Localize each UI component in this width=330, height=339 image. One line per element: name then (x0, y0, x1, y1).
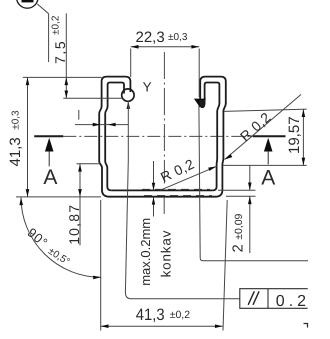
arrowhead 41,3 left bottom (26, 189, 30, 197)
extension line at wall jog (77, 163, 101, 165)
profile: right lip outer (200, 77, 226, 105)
arrowhead 2 up (248, 196, 252, 204)
svg-text:A: A (261, 167, 275, 190)
arrowhead R0,2 right (225, 154, 233, 160)
upper segment of dimension 2 (249, 165, 251, 190)
dimension line 41,3 left (27, 77, 29, 197)
profile: bottom inner edge (111, 189, 212, 191)
balloon circle (partially cut at top) (17, 0, 38, 8)
svg-text:konkav: konkav (158, 230, 173, 278)
arrowhead 22,3 right (191, 45, 199, 49)
leader from left lip tip down to control frame (125, 101, 239, 299)
right extension line down (223, 200, 227, 331)
konkav dashes above outer bottom (144, 194, 212, 196)
dimension 19,57 right (223, 109, 307, 165)
big down arrow at right lip tip (194, 99, 206, 108)
profile: right wall inner (213, 104, 220, 191)
svg-text:±0,2: ±0,2 (51, 15, 62, 35)
svg-text:41,3: 41,3 (136, 306, 165, 324)
note max. 0.2mm konkav leader upper (153, 161, 155, 191)
svg-text:41,3: 41,3 (7, 137, 24, 166)
svg-text:±0,09: ±0,09 (233, 213, 245, 239)
arrowhead arc top (19, 198, 23, 206)
profile: right lip inner (205, 83, 220, 105)
konkav dashes above inner bottom (142, 189, 212, 195)
top extension line (shared with 41,3) (23, 76, 102, 78)
arrowhead arc bottom (93, 276, 101, 280)
arrowhead dimension 1 inner (108, 123, 116, 127)
dimension 2 ±0,09 (218, 165, 256, 253)
section arrow left (45, 138, 54, 167)
profile: left lip inner (108, 83, 124, 108)
note leader lower (153, 197, 155, 217)
feature control frame (240, 289, 308, 309)
radius leader R0,2 center (160, 166, 216, 190)
section arrow right (264, 138, 273, 165)
lower segment of dimension 2 with text underline (249, 196, 251, 253)
profile: right wall outer (216, 104, 226, 197)
arrowhead konkav down (152, 183, 155, 191)
svg-text:±0,2: ±0,2 (170, 309, 191, 321)
left extension line down (100, 200, 102, 331)
profile: bottom outer edge (110, 196, 216, 198)
section line thick bar left (34, 135, 63, 137)
profile: left wall inner (105, 107, 111, 191)
dimension line 22,3 (131, 46, 200, 48)
border corner mark bottom right (304, 324, 308, 328)
arrowhead 19,57 bottom (302, 158, 306, 166)
lower extension line at lip tip bottom (63, 97, 122, 99)
svg-text:±0,3: ±0,3 (11, 110, 22, 130)
dimension line 10,87 (79, 164, 81, 246)
dark blob at right lip tip under arrow (200, 100, 205, 107)
svg-text:max.0.2mm: max.0.2mm (138, 218, 153, 286)
inner bottom extension right (218, 189, 256, 191)
arrowhead 7,5 down (65, 91, 69, 99)
vertical centerline (163, 52, 165, 214)
angle dimension 90° ±0,5° arc (21, 198, 101, 278)
extension line left of 22,3 (130, 49, 132, 78)
arrow at left lip tip pointing up (127, 101, 131, 109)
balloon leader landing line (48, 14, 50, 62)
arrowhead dimension 1 (93, 123, 101, 127)
profile: left lip outer (99, 77, 226, 197)
profile: right lip tip cap (200, 104, 204, 108)
arrowhead R0,2 center (208, 166, 216, 171)
arrowhead 2 down (248, 183, 252, 191)
svg-text:2: 2 (231, 244, 247, 252)
arrowhead 41,3 bottom right (215, 324, 223, 328)
outer bottom extension right (226, 195, 256, 197)
arrowhead 41,3 bottom left (101, 324, 109, 328)
svg-text:7,5: 7,5 (52, 40, 68, 64)
dimension 22,3 ±0,3 top (131, 47, 308, 261)
tick for dimension 1 (78, 110, 80, 120)
radius leader R0,2 right (225, 95, 301, 160)
dimension line 1 (75, 124, 128, 126)
svg-text:22,3: 22,3 (136, 29, 165, 46)
parallelism symbol // (248, 291, 259, 305)
arrowhead 10,87 bottom (78, 189, 82, 197)
svg-text:Y: Y (143, 79, 152, 94)
svg-text:19,57: 19,57 (286, 116, 303, 154)
svg-text:0.2: 0.2 (276, 293, 310, 310)
svg-text:±0,3: ±0,3 (168, 32, 188, 43)
dimension 7,5 ±0,2 (23, 13, 123, 98)
profile: left wall outer (99, 107, 109, 197)
arrowhead 41,3 left top (26, 77, 30, 85)
arrowhead 7,5 up (65, 77, 69, 85)
dimension line 41,3 bottom (101, 325, 223, 327)
section cutting line A-A (dash-dot middle) (63, 135, 255, 137)
vertical centerline lower dash below flange (163, 198, 165, 214)
section line thick bar right (253, 135, 286, 137)
dimension line 19,57 (302, 109, 304, 165)
extension line top (right jog) (224, 109, 307, 111)
arrowhead 22,3 left (131, 45, 139, 49)
svg-text:A: A (43, 166, 57, 189)
arrowhead konkav up (152, 197, 155, 205)
frame divider (267, 289, 269, 309)
dimension 1 (wall) (75, 110, 128, 125)
extension line bottom (right jog 2) (223, 164, 307, 166)
arrowhead 19,57 top (302, 109, 306, 117)
arrowhead 10,87 top (78, 164, 82, 172)
svg-text:10,87: 10,87 (66, 204, 82, 245)
leader continuation from lip tip down and right (199, 106, 308, 261)
bottom extension line (shared with 90°) (16, 196, 101, 198)
dimension 41,3 ±0,2 bottom (101, 200, 228, 331)
dimension 10,87 (77, 164, 101, 246)
balloon leader diagonal (37, 4, 48, 14)
dimension line 7,5 with text underline extension (65, 13, 67, 98)
dimension 41,3 ±0,3 left (16, 77, 101, 197)
balloon bold content bottom (22, 0, 34, 2)
extension/leader line right of 22,3 going down to tip (198, 49, 200, 98)
profile: left lip tip curl circle (122, 89, 134, 101)
